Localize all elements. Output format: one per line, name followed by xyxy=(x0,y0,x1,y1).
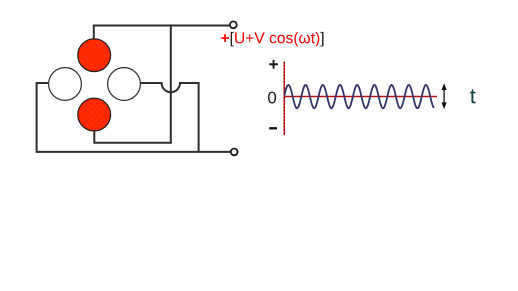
wire: top rod stem up and across to top terminal xyxy=(94,26,230,41)
waveform axis: vertical dotted maroon line xyxy=(283,62,285,135)
terminal: top output node xyxy=(230,21,237,28)
amplitude arrow: double-headed vertical xyxy=(442,83,447,109)
wire: vertical drop from top bus junction down to lower connector xyxy=(170,26,172,143)
electrode rod: bottom (red, stippled) xyxy=(78,98,111,131)
electrode rod: top (red) xyxy=(78,39,111,72)
value label: +[U+V cos(wt)] xyxy=(221,34,229,42)
wire: bottom rod stem down then right to vertical drop xyxy=(94,129,172,143)
zero line: horizontal red time axis xyxy=(284,96,437,98)
terminal: bottom output node xyxy=(231,149,238,156)
wire: left rod out left and down to bottom bus xyxy=(37,83,49,151)
axis label: minus xyxy=(269,127,277,129)
electrode rod: right (white) xyxy=(108,68,141,101)
waveform: RF sine wave xyxy=(284,85,434,108)
wire: right rod across with hop over vertical, then down to bottom bus xyxy=(141,83,199,152)
wire: bottom bus to bottom terminal xyxy=(36,151,231,153)
electrode rod: left (white) xyxy=(49,68,82,101)
axis label: zero xyxy=(268,92,276,104)
axis label: plus xyxy=(269,60,278,69)
axis label: t (time) xyxy=(470,89,476,103)
